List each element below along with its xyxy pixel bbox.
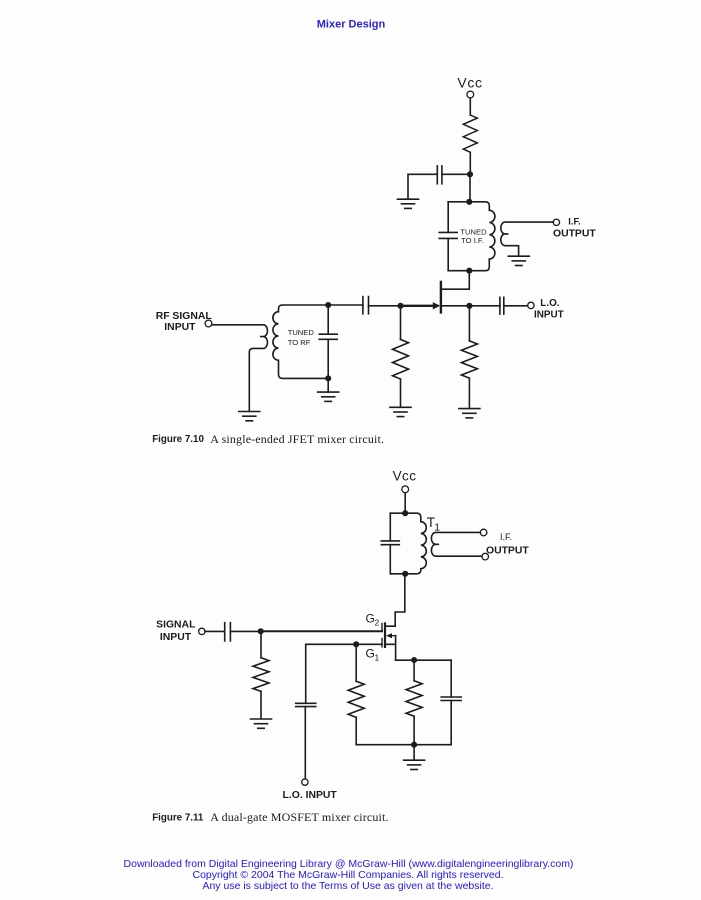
svg-text:2: 2 [375,617,380,627]
capacitor C9 (source bypass) [441,697,461,701]
svg-text:Figure 7.11: Figure 7.11 [152,812,204,823]
resistor R6 (source bias) [406,681,422,716]
svg-text:I.F.: I.F. [568,216,580,226]
I.F. OUTPUT terminal (top) [480,529,487,536]
MOSFET Q2 channel bar [384,623,386,647]
node: drain-supply bypass junction [467,171,473,177]
capacitor C5 (L.O. coupling) [500,297,504,314]
svg-text:A single-ended JFET mixer circ: A single-ended JFET mixer circuit. [210,432,384,446]
wire coupling capacitor to gate node [369,305,401,307]
wire bottom rail to ground [413,745,415,760]
wire resistor R6 to bottom rail [413,716,415,745]
MOSFET Q2 source lead [386,636,396,661]
wire resistor R4 to ground [260,691,262,719]
wire gate-2 node to MOSFET gate-2 [261,630,382,632]
resistor R1 (drain supply dropping resistor) [463,115,477,152]
node: RF tank bottom [325,375,331,381]
source top rail [396,659,452,661]
node: bottom rail ground junction [411,742,417,748]
wire resistor R2 to ground [400,379,402,407]
svg-text:OUTPUT: OUTPUT [553,229,596,240]
JFET Q1 source lead [442,305,470,307]
ground (gate-2 resistor) [251,719,272,728]
svg-text:INPUT: INPUT [164,322,196,333]
ground (supply bypass) [398,199,419,208]
bottom rail [356,744,451,746]
ground (gate resistor) [390,407,411,416]
resistor R5 (gate-1) [348,681,364,717]
wire C8 to L.O. terminal [304,707,306,779]
node: gate bias junction [397,303,403,309]
svg-text:RF SIGNAL: RF SIGNAL [156,311,213,322]
wire node to capacitor C1 [442,173,470,175]
svg-text:TO RF: TO RF [288,338,311,347]
svg-text:1: 1 [375,652,380,662]
node: signal/gate-2 junction [258,628,264,634]
wire source rail node to resistor R6 [413,660,415,681]
wire MOSFET drain lead [386,574,405,626]
wire C5 to L.O. terminal [504,305,527,307]
JFET Q1 gate lead with arrow [401,302,441,309]
node: T1 tank bottom [402,571,408,577]
capacitor C7 (signal coupling) [225,623,231,641]
label SIGNAL INPUT [156,619,196,643]
wire gate node to resistor R2 [400,306,402,340]
node: T1 tank top [402,510,408,516]
wire resistor R3 to ground [468,378,470,408]
svg-text:Vcc: Vcc [457,75,482,91]
svg-text:A dual-gate MOSFET mixer circu: A dual-gate MOSFET mixer circuit. [210,810,388,824]
wire RF tank top to coupling capacitor [328,304,363,306]
MOSFET Q2 gate-2 bar [381,624,383,632]
node: source rail / resistor R6 [411,657,417,663]
JFET Q1 channel bar [440,282,442,313]
svg-text:I.F.: I.F. [500,532,512,542]
wire source node to resistor R3 [468,306,470,341]
node: gate-1 junction [353,641,359,647]
capacitor C4 (RF coupling) [363,297,369,314]
node: source junction [466,303,472,309]
svg-text:OUTPUT: OUTPUT [486,545,529,556]
node: IF tank bottom / JFET drain [466,268,472,274]
capacitor C3 (RF tank tuning) [319,334,337,339]
svg-text:TO I.F.: TO I.F. [461,236,484,245]
node: RF tank top [325,302,331,308]
wire resistor R5 to bottom rail [355,717,357,744]
label TUNED TO I.F. [460,228,487,246]
label RF SIGNAL INPUT [156,311,213,333]
wire gate-1 node to resistor R5 [355,644,357,681]
right bypass branch wires [450,660,452,745]
I.F. OUTPUT terminal (bottom) [482,553,489,560]
footer copyright block [124,858,574,892]
IF transformer secondary winding [501,222,554,256]
IF tank loop with primary inductor (tuned to I.F.) [448,202,495,271]
L.O. INPUT terminal (Fig 7.11) [302,779,308,785]
label I.F. OUTPUT (Fig 7.11) [486,532,529,556]
label L.O. INPUT [534,298,564,320]
svg-text:G: G [366,646,375,660]
T1 tank left branch wires [389,513,391,574]
capacitor C6 (T1 tank tuning) [381,541,399,545]
ground (RF tank) [318,392,339,401]
L.O. INPUT terminal [528,302,534,308]
wire Vcc terminal to resistor R1 [469,98,471,115]
Vcc terminal (Fig 7.11) [402,486,409,493]
wire C1 to ground [408,174,437,199]
wire input terminal to capacitor C7 [205,630,225,632]
svg-text:SIGNAL: SIGNAL [156,619,196,630]
capacitor C2 (IF tank tuning) [439,232,457,238]
label G2 [366,612,380,628]
wire C7 to gate-2 node [230,630,260,632]
wire resistor R1 to bypass node [469,152,471,174]
IF tank left branch wires [447,202,449,271]
RF SIGNAL INPUT terminal [205,320,212,327]
caption Figure 7.10 [152,432,384,446]
caption Figure 7.11 [152,810,388,824]
wire RF tank bottom to ground [327,378,329,392]
wire gate-1 rail [306,644,382,703]
label T1 [427,515,441,534]
ground (Fig 7.11 common) [404,760,425,769]
transformer T1 secondary winding [431,532,482,556]
ground (IF secondary) [508,256,529,265]
svg-text:TUNED: TUNED [288,328,315,337]
label G1 [366,646,380,662]
wire gate-2 node to resistor R4 [260,631,262,658]
svg-text:Downloaded from Digital Engine: Downloaded from Digital Engineering Libr… [124,858,574,870]
capacitor C8 (L.O. coupling, Fig 7.11) [296,703,316,706]
wire bypass node to IF tank top [469,174,471,202]
SIGNAL INPUT terminal [199,628,205,634]
transformer T1 tank loop with primary winding [390,513,426,574]
svg-text:Vcc: Vcc [393,468,417,483]
svg-text:Mixer Design: Mixer Design [317,19,386,31]
Vcc terminal (Fig 7.10) [467,91,474,98]
svg-text:Copyright © 2004 The McGraw-Hi: Copyright © 2004 The McGraw-Hill Compani… [193,869,504,881]
wire JFET drain lead [442,271,470,290]
svg-text:Any use is subject to the Term: Any use is subject to the Terms of Use a… [202,880,493,892]
label I.F. OUTPUT [553,216,596,239]
wire Vcc terminal to T1 tank [404,493,406,513]
label TUNED TO RF [288,328,315,347]
svg-text:INPUT: INPUT [160,632,192,643]
ground (source resistor) [459,409,480,418]
resistor R3 (source bias) [461,341,477,378]
resistor R2 (gate bias) [393,339,409,379]
wire source node to L.O. coupling capacitor [469,305,500,307]
ground (RF input primary) [239,412,260,421]
RF tank capacitor branch wires [327,305,329,378]
svg-text:Figure 7.10: Figure 7.10 [152,434,204,445]
svg-text:L.O.: L.O. [540,298,559,309]
capacitor C1 (supply bypass) [437,166,442,184]
node: IF tank top [466,199,472,205]
MOSFET Q2 substrate arrow [386,633,396,638]
svg-text:INPUT: INPUT [534,310,564,321]
RF input transformer primary winding [212,325,268,412]
svg-text:G: G [366,612,375,626]
RF tank loop with secondary winding (tuned to RF) [273,305,328,378]
MOSFET Q2 gate-1 bar [381,639,383,647]
resistor R4 (gate-2 bias) [253,658,269,692]
svg-text:L.O. INPUT: L.O. INPUT [283,790,338,801]
I.F. OUTPUT terminal [553,219,559,225]
